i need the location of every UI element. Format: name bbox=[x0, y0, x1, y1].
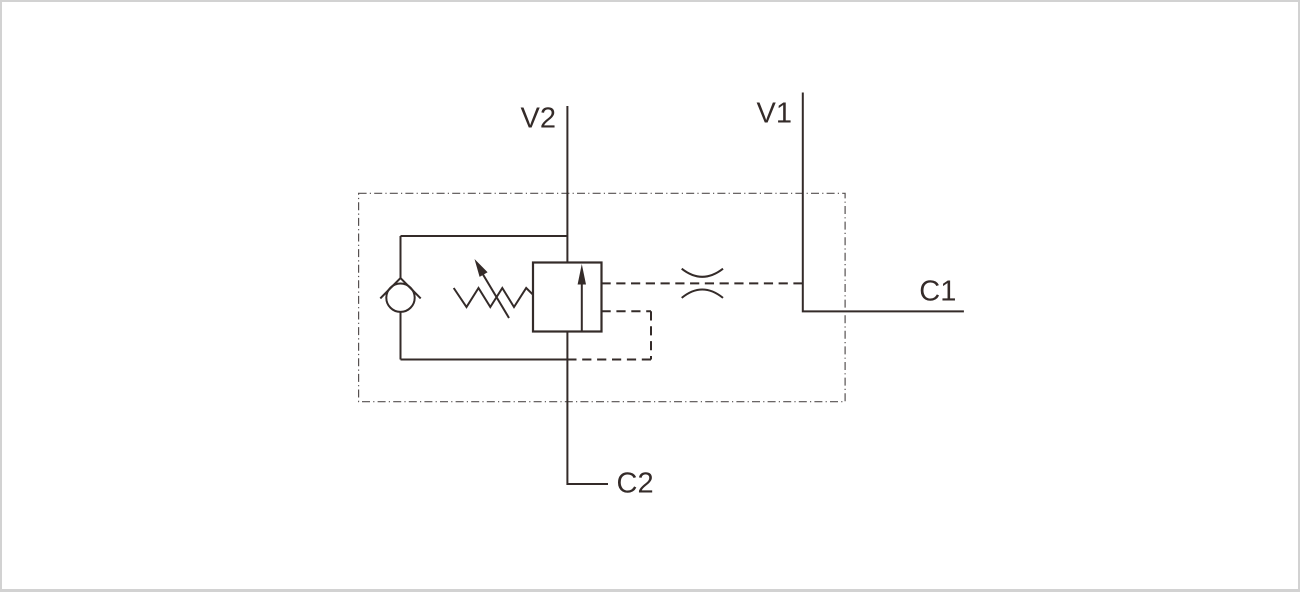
enclosure (valve assembly dash-dot boundary) bbox=[359, 193, 845, 401]
wire V2 vertical (top to valve body) bbox=[566, 106, 568, 263]
svg-text:C1: C1 bbox=[919, 275, 956, 307]
svg-text:V1: V1 bbox=[757, 98, 792, 130]
spring (pilot setting) bbox=[454, 288, 533, 307]
flow arrow inside valve body bbox=[581, 282, 583, 332]
valve body (relief element) bbox=[533, 263, 602, 332]
pilot drain line vertical (dashed) bbox=[650, 311, 652, 359]
wire V2 lower (valve body to C2 stub) bbox=[567, 332, 608, 485]
wire check-valve upper stub bbox=[400, 236, 402, 278]
svg-text:C2: C2 bbox=[617, 468, 654, 500]
wire bypass top bbox=[401, 235, 568, 237]
pilot drain line return (dashed) bbox=[567, 359, 651, 361]
pilot drain line horizontal (dashed) bbox=[602, 310, 652, 312]
orifice upper arc bbox=[682, 269, 723, 277]
check valve ball bbox=[386, 284, 414, 312]
wire bypass bottom bbox=[401, 359, 568, 361]
wire V1 vertical and C1 horizontal bbox=[803, 93, 964, 312]
adjustment arrow across spring bbox=[483, 275, 509, 319]
check valve seat bbox=[380, 278, 420, 298]
wire check-valve lower stub bbox=[400, 312, 402, 360]
pilot line upper (dashed, to V1) bbox=[602, 282, 803, 284]
svg-text:V2: V2 bbox=[521, 103, 556, 135]
orifice lower arc bbox=[682, 290, 723, 298]
